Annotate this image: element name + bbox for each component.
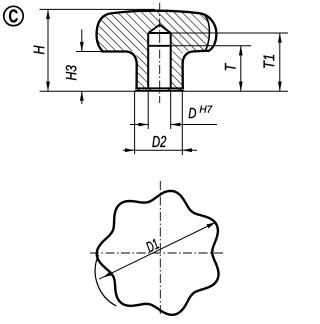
D1 arrow lower left xyxy=(103,271,112,277)
dimension D2 line xyxy=(123,149,197,151)
T arrow down xyxy=(239,82,243,92)
hole bottom chamfer left xyxy=(148,87,151,90)
ext line top (H) xyxy=(40,8,156,10)
dimension T1 line xyxy=(279,33,281,91)
head underside right xyxy=(183,51,210,63)
ext line T1 xyxy=(216,32,288,34)
dimension D1 line xyxy=(99,223,215,280)
hub corner chamfer right xyxy=(180,87,183,90)
horizontal centerline star xyxy=(90,252,224,254)
star outline (7 lobes) xyxy=(97,191,219,315)
H3 upper arrow line xyxy=(81,30,83,52)
view label circle C xyxy=(4,6,23,25)
H arrow down xyxy=(46,82,50,92)
ext line underside (H3) xyxy=(76,51,103,53)
recess arc lower-left lobe xyxy=(95,255,116,306)
dimension D H7 left segment xyxy=(130,124,148,126)
hole bottom chamfer right xyxy=(168,87,171,90)
centerline section view xyxy=(159,3,161,103)
H arrow up xyxy=(46,9,50,19)
section hatching xyxy=(97,11,209,91)
hub bottom chamfer line xyxy=(135,87,184,89)
vertical centerline star xyxy=(159,181,161,314)
label H7 superscript xyxy=(200,106,213,113)
ext line T xyxy=(208,45,251,47)
hub bottom face line xyxy=(135,90,184,92)
hub left edge xyxy=(135,62,137,88)
D1 arrow upper right xyxy=(207,223,216,229)
label H3 xyxy=(66,65,77,80)
T1 arrow up xyxy=(278,33,282,43)
dimension T line xyxy=(240,46,242,91)
hub corner chamfer left xyxy=(137,87,140,90)
thread depth line xyxy=(148,45,171,47)
view label letter C xyxy=(9,9,18,22)
ext line hole left xyxy=(147,91,149,129)
thin line through head at thread depth level xyxy=(171,45,210,47)
label D xyxy=(189,108,196,118)
ext line hole right xyxy=(170,91,172,129)
hole right wall xyxy=(170,33,172,88)
ext line hub left xyxy=(134,91,136,154)
H3 arrow down xyxy=(80,42,84,52)
label H xyxy=(34,46,45,55)
head outline (section) xyxy=(97,11,217,52)
label T xyxy=(225,63,236,70)
lobe silhouette behind cut (right) xyxy=(204,15,210,51)
hub right edge xyxy=(181,62,183,88)
T arrow up xyxy=(239,46,243,56)
label D2 xyxy=(152,136,166,147)
drill point tip xyxy=(148,25,171,33)
D H7 arrow pointing right xyxy=(139,123,149,127)
hole left wall xyxy=(147,33,149,88)
D2 arrow pointing left xyxy=(182,148,192,152)
D H7 leader line xyxy=(171,124,217,126)
ext line hub right xyxy=(181,91,183,155)
head underside left xyxy=(102,52,137,64)
dimension H line xyxy=(47,9,49,91)
label T1 xyxy=(264,55,275,68)
H3 arrow up xyxy=(80,91,84,101)
T1 arrow down xyxy=(278,82,282,92)
D H7 arrow pointing left xyxy=(171,123,181,127)
H3 lower arrow line xyxy=(81,91,83,104)
thin line through head at hole top level xyxy=(171,32,217,34)
D2 arrow pointing right xyxy=(125,148,135,152)
hole top line xyxy=(148,32,171,34)
ext line bottom reference xyxy=(40,90,289,92)
label D1 xyxy=(146,239,159,253)
